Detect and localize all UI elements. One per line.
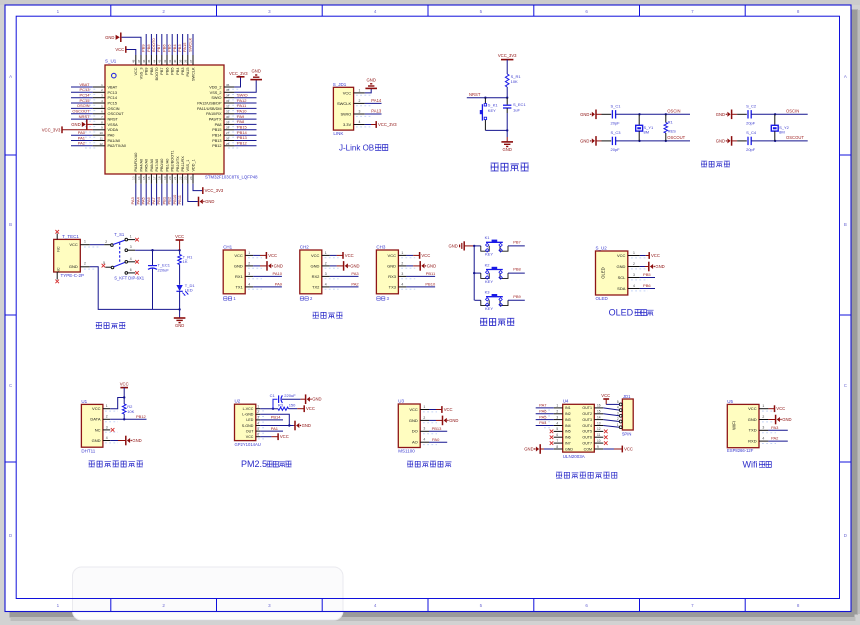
svg-text:STM32F103C8T6_LQFP48: STM32F103C8T6_LQFP48: [205, 175, 258, 180]
svg-text:8M: 8M: [779, 129, 785, 134]
wire uln gnd pin8 to GND: [544, 448, 554, 450]
svg-text:VCC: VCC: [92, 406, 101, 411]
svg-text:150: 150: [289, 403, 296, 408]
svg-text:PA12/USB/DP: PA12/USB/DP: [197, 102, 222, 106]
svg-text:36: 36: [226, 83, 230, 87]
svg-text:OLED: OLED: [601, 267, 606, 278]
svg-text:20pF: 20pF: [611, 147, 621, 152]
wire tec1 gnd down to bottom rail: [90, 267, 180, 310]
svg-text:45: 45: [147, 59, 151, 63]
svg-text:27: 27: [226, 131, 230, 135]
svg-text:R1: R1: [668, 120, 674, 125]
svg-text:KEY: KEY: [485, 252, 493, 257]
svg-text:20pF: 20pF: [746, 121, 756, 126]
title wenshidu jiance mokuai: [89, 461, 95, 467]
svg-text:PA10: PA10: [273, 271, 283, 276]
wires mcu right pins 34-25 net labels: [234, 97, 256, 99]
ground crystal c3: [597, 140, 602, 142]
svg-text:PC13: PC13: [79, 87, 90, 92]
svg-text:VDD_1: VDD_1: [191, 159, 195, 171]
svg-text:GND: GND: [311, 263, 320, 268]
svg-text:2: 2: [325, 261, 327, 265]
svg-text:VCC: VCC: [343, 90, 352, 95]
svg-text:1: 1: [257, 405, 259, 409]
wire dht11 pin2 data net PB12: [110, 418, 146, 420]
svg-text:VCC: VCC: [268, 253, 277, 258]
svg-text:PB14: PB14: [271, 415, 282, 420]
wire oled pin3 net PB5: [640, 277, 655, 279]
wire pm25 pin1: [260, 408, 278, 410]
wire oled pin4 net PB6: [640, 288, 655, 290]
svg-text:15: 15: [597, 410, 601, 414]
power GND at mcu pin 8 VSSA: [88, 123, 93, 125]
wire ms1100 pin2 to GND: [429, 419, 436, 421]
svg-text:SWCLK: SWCLK: [187, 37, 192, 52]
svg-text:LED: LED: [246, 418, 253, 422]
svg-text:GND: GND: [748, 417, 757, 422]
wire led to bottom rail: [179, 291, 181, 317]
keys vertical bus wire: [473, 246, 475, 300]
svg-text:VBAT: VBAT: [79, 82, 90, 87]
svg-text:NRST: NRST: [469, 92, 481, 97]
svg-text:LINK: LINK: [333, 131, 343, 136]
svg-text:OSCOUT: OSCOUT: [667, 135, 685, 140]
svg-text:GND: GND: [565, 447, 573, 451]
uln out5-out7 no connect: [604, 430, 608, 434]
svg-text:38: 38: [184, 59, 188, 63]
svg-text:PB6: PB6: [165, 68, 169, 75]
svg-text:PB5: PB5: [643, 272, 651, 277]
ms1100 U3 body: [398, 404, 420, 448]
wire wifi pin4 net PA2: [768, 440, 787, 442]
svg-text:OSCOUT: OSCOUT: [108, 112, 125, 116]
svg-text:OUT: OUT: [246, 429, 254, 433]
serial connector CH3 body: [376, 250, 398, 294]
svg-text:PB7: PB7: [513, 240, 521, 245]
svg-text:PB7: PB7: [160, 68, 164, 75]
svg-text:5: 5: [103, 261, 105, 265]
svg-text:14: 14: [137, 176, 141, 180]
svg-text:25: 25: [226, 142, 230, 146]
svg-text:PB9: PB9: [513, 294, 521, 299]
CH1 pin stubs: [245, 254, 253, 256]
svg-text:PB13: PB13: [237, 135, 248, 140]
svg-text:2: 2: [556, 410, 558, 414]
svg-text:L-VCC: L-VCC: [243, 407, 254, 411]
svg-text:13: 13: [132, 176, 136, 180]
title anjian dianlu: [480, 318, 487, 325]
svg-text:3: 3: [248, 272, 250, 276]
svg-text:PA1: PA1: [78, 135, 86, 140]
svg-text:S_C2: S_C2: [746, 103, 757, 108]
wire CH1 pin4 net PA9: [253, 286, 282, 288]
svg-text:PB8: PB8: [150, 68, 154, 75]
svg-text:PB10: PB10: [425, 282, 436, 287]
svg-text:PB11/RX: PB11/RX: [181, 156, 185, 172]
CH2 pin stubs: [322, 254, 330, 256]
svg-text:1: 1: [556, 404, 558, 408]
title chuankou dianlu: [313, 312, 319, 318]
svg-text:U4: U4: [563, 399, 569, 404]
wire pm25 pin2 lgnd loop: [260, 414, 289, 425]
zone dividers left/right: [5, 154, 16, 156]
svg-text:VCC_3V3: VCC_3V3: [42, 127, 61, 132]
mcu U1 body STM32F103C8T6: [105, 65, 224, 174]
capacitor S_C2 20pF: [737, 113, 747, 115]
svg-text:4: 4: [423, 438, 425, 442]
svg-text:17: 17: [152, 176, 156, 180]
svg-text:VCC: VCC: [776, 406, 785, 411]
svg-text:U5: U5: [727, 399, 733, 404]
push button K1: [475, 245, 481, 247]
wire K3 to net PB9: [508, 299, 525, 301]
wire pm25 pin4 sgnd to GND: [260, 425, 294, 427]
svg-text:PA15: PA15: [186, 68, 190, 77]
svg-text:3: 3: [257, 416, 259, 420]
wire jlink pin4 to VCC_3V3: [365, 124, 371, 126]
svg-text:PB8: PB8: [513, 267, 521, 272]
svg-text:GND: GND: [92, 438, 101, 443]
svg-text:A: A: [844, 74, 847, 79]
wire jlink pin1 to GND: [365, 88, 371, 93]
svg-text:PA4/A0: PA4/A0: [139, 159, 143, 172]
wire dht11 pin1 elbow to vcc: [110, 398, 124, 409]
svg-text:3.3V: 3.3V: [343, 122, 352, 127]
svg-text:1: 1: [617, 423, 619, 427]
wire pm25 pin3 net PB14: [260, 419, 283, 421]
svg-text:28: 28: [226, 126, 230, 130]
svg-text:33: 33: [226, 99, 230, 103]
svg-text:VCC: VCC: [246, 435, 254, 439]
wire mcu bottom VDD_1 to VCC_3V3: [193, 184, 202, 191]
wire tec1 vcc to switch: [90, 244, 104, 246]
svg-text:PA1: PA1: [271, 426, 279, 431]
svg-text:NC: NC: [57, 267, 61, 273]
svg-text:IN1: IN1: [565, 406, 571, 410]
svg-text:1: 1: [84, 240, 86, 244]
wire jlink pin3 net PA13: [365, 113, 382, 115]
svg-text:VCC: VCC: [134, 67, 138, 75]
svg-text:S_U2: S_U2: [596, 245, 608, 250]
svg-text:GP2Y1014AU: GP2Y1014AU: [235, 442, 261, 447]
svg-text:GND: GND: [449, 418, 458, 423]
svg-text:PA9: PA9: [275, 282, 283, 287]
svg-text:220uF: 220uF: [284, 393, 296, 398]
svg-text:S_U1: S_U1: [105, 59, 117, 64]
svg-text:10K: 10K: [511, 79, 518, 84]
svg-text:2: 2: [84, 262, 86, 266]
svg-text:IN5: IN5: [565, 430, 571, 434]
svg-text:6: 6: [130, 268, 132, 272]
svg-text:6: 6: [257, 433, 259, 437]
svg-text:GND: GND: [234, 263, 243, 268]
svg-text:10: 10: [597, 439, 601, 443]
svg-text:PA1/A0: PA1/A0: [108, 139, 121, 143]
wire switch contact 3 to rail: [135, 249, 179, 251]
wire wifi pin1 to VCC: [768, 408, 774, 410]
svg-text:RES: RES: [668, 129, 677, 134]
svg-text:ESP8266-12F: ESP8266-12F: [727, 448, 754, 453]
svg-text:RX3: RX3: [388, 274, 397, 279]
svg-text:PA11: PA11: [237, 103, 247, 108]
pm25 pin stubs: [256, 408, 260, 410]
svg-text:OUT5: OUT5: [582, 430, 592, 434]
svg-text:VCC: VCC: [444, 407, 453, 412]
svg-text:2: 2: [401, 261, 403, 265]
svg-text:R3: R3: [278, 403, 284, 408]
dht11 pin stubs: [103, 408, 110, 410]
wire mcu bottom VSS_1 to GND: [188, 184, 198, 202]
svg-text:18: 18: [158, 176, 162, 180]
svg-text:T_S1: T_S1: [114, 232, 125, 237]
svg-text:RX1: RX1: [235, 274, 244, 279]
svg-text:1: 1: [248, 251, 250, 255]
svg-text:IN7: IN7: [565, 441, 571, 445]
svg-text:PA13: PA13: [371, 109, 382, 114]
svg-text:2: 2: [359, 99, 361, 103]
dht11 pin3 no connect: [111, 428, 115, 432]
sheet drop shadow: [10, 611, 855, 618]
svg-text:23: 23: [184, 176, 188, 180]
wire wifi pin3 net PA3: [768, 429, 787, 431]
svg-text:4: 4: [556, 421, 558, 425]
svg-text:3: 3: [633, 273, 635, 277]
svg-text:DHT11: DHT11: [81, 448, 95, 453]
svg-text:MS1100: MS1100: [398, 448, 415, 453]
svg-text:PA9/TX: PA9/TX: [209, 118, 222, 122]
svg-text:SWIO: SWIO: [237, 92, 248, 97]
svg-text:34: 34: [226, 94, 230, 98]
tec1 nc pin bottom: [56, 272, 58, 280]
svg-text:GND: GND: [312, 397, 321, 402]
svg-text:11: 11: [100, 136, 103, 140]
CH1 value label: [224, 297, 227, 300]
svg-text:42: 42: [163, 59, 167, 63]
resistor R3 150: [278, 407, 289, 410]
svg-text:GND: GND: [69, 264, 78, 269]
ground power circuit: [174, 317, 186, 319]
wires uln in1-in4 nets PA7 PA6 PA5 PA4: [536, 407, 554, 409]
serial connector CH2 body: [300, 250, 322, 294]
title fuwei dianlu: [491, 163, 499, 171]
svg-text:NC: NC: [57, 246, 61, 252]
wire pm25 pin6 to VCC: [260, 436, 271, 438]
uln left pin stubs: [554, 407, 563, 409]
svg-text:PB2/BOOT1: PB2/BOOT1: [171, 150, 175, 171]
svg-text:43: 43: [158, 59, 162, 63]
capacitor S_C3 20pF: [602, 140, 612, 142]
svg-text:VSSA: VSSA: [108, 123, 119, 127]
svg-text:PC14: PC14: [79, 93, 90, 98]
wire ms1100 pin3 net PB13: [429, 430, 447, 432]
svg-text:C: C: [844, 383, 847, 388]
svg-text:SCL: SCL: [618, 275, 627, 280]
svg-text:PA8: PA8: [237, 119, 245, 124]
resistor S_R1 10K: [505, 74, 509, 87]
capacitor C1 220uF: [273, 399, 277, 409]
svg-text:PA14: PA14: [371, 98, 382, 103]
svg-text:PA0: PA0: [78, 130, 86, 135]
motor connector pins: [619, 403, 622, 405]
svg-text:2: 2: [617, 417, 619, 421]
svg-text:CH3: CH3: [376, 244, 385, 249]
svg-text:GND: GND: [105, 35, 114, 40]
svg-text:SDA: SDA: [617, 286, 626, 291]
svg-text:2: 2: [423, 416, 425, 420]
push button K3: [475, 299, 481, 301]
svg-text:B: B: [844, 222, 847, 227]
svg-text:PB15: PB15: [237, 125, 248, 130]
svg-text:PB3: PB3: [181, 68, 185, 75]
pm25 sensor U2 body GP2Y1014AU: [235, 404, 256, 440]
svg-text:RX2: RX2: [312, 274, 321, 279]
svg-text:U3: U3: [398, 398, 404, 403]
svg-text:Wifi: Wifi: [743, 459, 758, 469]
svg-text:VDD_2: VDD_2: [209, 85, 221, 89]
svg-text:K3: K3: [485, 290, 491, 295]
svg-text:VCC: VCC: [345, 253, 354, 258]
wire oled pin1 to VCC: [640, 255, 646, 257]
svg-text:PB15: PB15: [212, 128, 221, 132]
svg-text:S_EC1: S_EC1: [513, 102, 526, 107]
svg-text:PA8: PA8: [215, 123, 222, 127]
svg-text:4: 4: [633, 284, 635, 288]
svg-text:1K: 1K: [183, 259, 188, 264]
svg-text:20pF: 20pF: [746, 147, 756, 152]
svg-text:4: 4: [359, 120, 361, 124]
svg-text:12: 12: [597, 427, 601, 431]
svg-text:PA0: PA0: [108, 134, 115, 138]
svg-text:4: 4: [762, 437, 764, 441]
svg-text:S_K1: S_K1: [488, 103, 499, 108]
svg-text:41: 41: [168, 59, 172, 63]
svg-text:PB11: PB11: [426, 271, 436, 276]
svg-text:COM: COM: [584, 447, 592, 451]
svg-text:GND: GND: [580, 112, 589, 117]
svg-text:PC15: PC15: [79, 98, 90, 103]
svg-text:VCC_3V3: VCC_3V3: [378, 122, 397, 127]
svg-text:PB0/A0: PB0/A0: [160, 159, 164, 172]
wifi pin stubs: [759, 408, 768, 410]
svg-text:GND: GND: [427, 263, 436, 268]
jlink connector S_JD1 body: [333, 87, 353, 130]
wires uln out1-out4 to 5pin connector: [603, 408, 619, 410]
svg-text:NRST: NRST: [108, 118, 119, 122]
mcu left pin stubs 1-12: [93, 86, 105, 88]
svg-text:KEY: KEY: [485, 279, 493, 284]
svg-text:35: 35: [226, 88, 230, 92]
capacitor S_EC1 1uF: [506, 98, 508, 105]
wire NRST node: [467, 97, 507, 99]
wires mcu left pins 1-7 with net labels: [71, 86, 93, 88]
svg-text:VCC: VCC: [601, 393, 610, 398]
svg-text:GND: GND: [655, 264, 664, 269]
svg-text:14: 14: [597, 415, 601, 419]
resistor R2 10K pullup: [122, 404, 126, 414]
svg-text:26: 26: [226, 136, 230, 140]
svg-text:OLED: OLED: [596, 296, 609, 301]
capacitor S_C1 20pF: [602, 113, 612, 115]
svg-text:S-GND: S-GND: [242, 424, 254, 428]
resistor T_R1 1K: [179, 250, 181, 254]
svg-text:PA10/RX: PA10/RX: [206, 112, 222, 116]
svg-text:PA5/A0: PA5/A0: [145, 159, 149, 172]
svg-text:C1: C1: [270, 393, 276, 398]
svg-text:K1: K1: [485, 235, 491, 240]
power VCC_3V3 at mcu pin 9 VDDA: [62, 129, 93, 131]
push button K2: [475, 272, 481, 274]
svg-text:GND: GND: [367, 77, 376, 82]
svg-text:VCC: VCC: [748, 406, 757, 411]
svg-text:GND: GND: [524, 447, 533, 452]
svg-text:PB12: PB12: [212, 144, 221, 148]
svg-text:VCC: VCC: [115, 47, 124, 52]
svg-text:D: D: [9, 533, 12, 538]
svg-text:9: 9: [597, 445, 599, 449]
svg-text:31: 31: [226, 110, 230, 114]
wire CH3 pin3 net PB11: [406, 275, 435, 277]
svg-text:PB14: PB14: [237, 130, 248, 135]
svg-text:OSCIN: OSCIN: [786, 108, 799, 113]
svg-text:VSS_2: VSS_2: [210, 91, 222, 95]
svg-text:J-Link OB: J-Link OB: [339, 144, 374, 153]
svg-text:GND: GND: [716, 112, 725, 117]
svg-text:VCC: VCC: [409, 407, 418, 412]
svg-text:16: 16: [147, 176, 151, 180]
svg-text:JD1: JD1: [623, 394, 631, 399]
CH3 pin stubs: [398, 254, 406, 256]
svg-text:NC: NC: [95, 427, 101, 432]
usb connector T_TEC1 body TYPE-C-2P: [54, 239, 81, 272]
svg-text:4: 4: [401, 282, 403, 286]
svg-text:48: 48: [132, 59, 136, 63]
wifi U5 body ESP8266: [727, 404, 759, 447]
zone dividers top/bottom: [110, 5, 112, 16]
svg-text:S_C4: S_C4: [746, 130, 757, 135]
svg-text:SWCLK: SWCLK: [337, 101, 352, 106]
svg-text:20pF: 20pF: [611, 121, 621, 126]
svg-text:GND: GND: [617, 264, 626, 269]
svg-text:GND: GND: [409, 418, 418, 423]
svg-text:VCC: VCC: [311, 253, 320, 258]
svg-text:6: 6: [556, 433, 558, 437]
svg-text:40: 40: [173, 59, 177, 63]
svg-text:VCC: VCC: [280, 434, 289, 439]
svg-text:SWIO: SWIO: [211, 96, 221, 100]
svg-text:3: 3: [106, 425, 108, 429]
tec1 nc pin top: [56, 234, 58, 240]
svg-text:S_C1: S_C1: [611, 103, 622, 108]
svg-text:TX1: TX1: [235, 284, 243, 289]
svg-text:1: 1: [325, 251, 327, 255]
svg-text:OUT4: OUT4: [582, 424, 592, 428]
svg-text:U2: U2: [235, 399, 241, 404]
svg-text:S_JD1: S_JD1: [333, 82, 347, 87]
wire CH3 pin1 to VCC: [406, 254, 413, 256]
wire oscin 2: [751, 113, 808, 115]
title dianyuan dianlu: [96, 323, 102, 329]
svg-text:TXD: TXD: [749, 428, 757, 433]
svg-text:2: 2: [106, 415, 108, 419]
svg-text:2: 2: [762, 415, 764, 419]
svg-text:VDDA: VDDA: [108, 128, 119, 132]
svg-text:GND: GND: [274, 263, 283, 268]
wire r1 to led: [179, 265, 181, 285]
svg-text:37: 37: [189, 59, 193, 63]
svg-text:PB12: PB12: [136, 414, 147, 419]
jlink pin stubs: [354, 92, 365, 94]
svg-text:47: 47: [137, 59, 141, 63]
